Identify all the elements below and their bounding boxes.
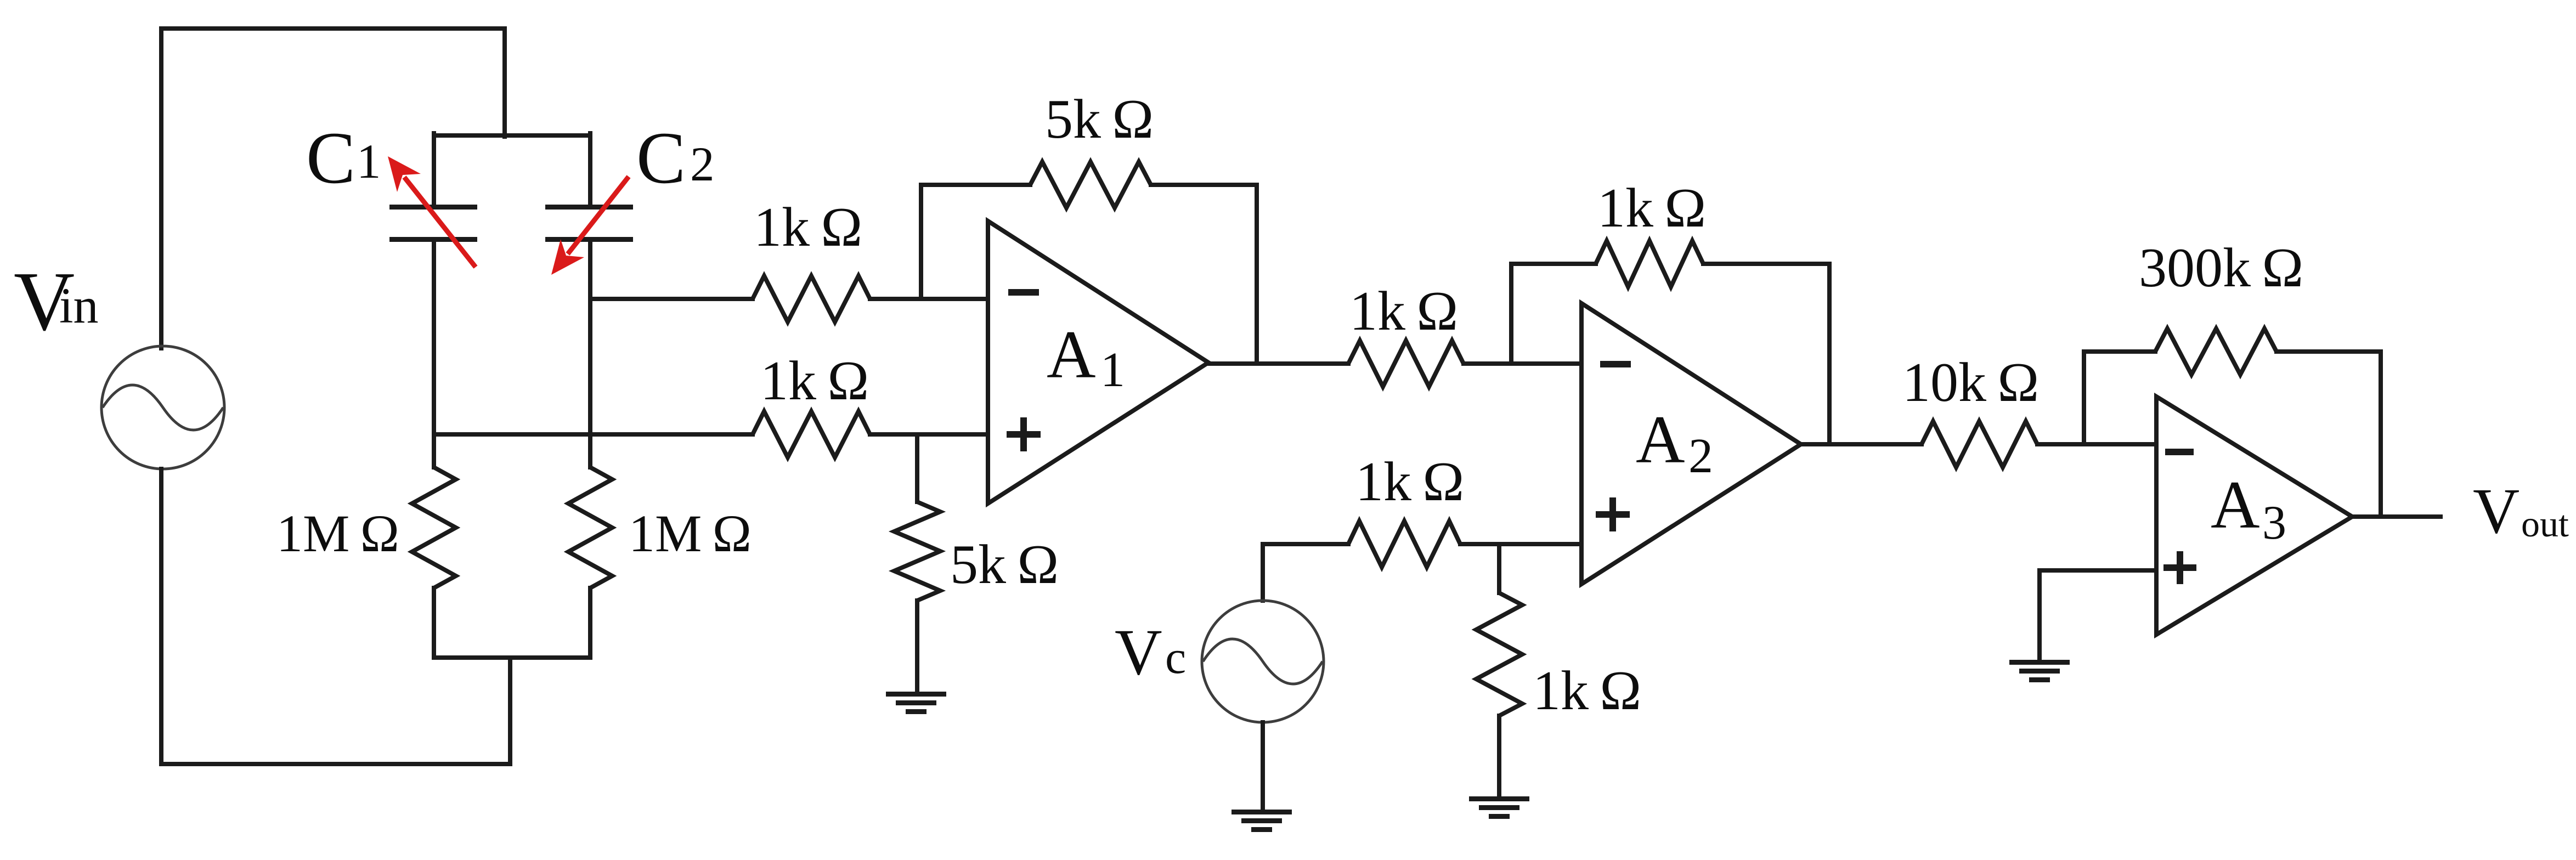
wire : 1k to ground [1497,716,1501,799]
wire : A3 plus row [2040,570,2156,662]
resistor R 1M-ohm left [412,467,456,588]
ground G3 [1469,796,1529,819]
AC source Vc [1202,601,1324,722]
svg-text:1k Ω: 1k Ω [1355,451,1464,513]
wire : C1 junction row to second 1k [434,432,753,437]
op-amp A2 [1581,303,1801,584]
ground G1 [886,692,946,714]
svg-text:V: V [1115,615,1162,688]
svg-text:1k Ω: 1k Ω [1597,177,1706,239]
resistor R 5k-ohm shunt [894,502,940,601]
svg-text:300k Ω: 300k Ω [2139,237,2303,299]
A1 minus pin [1008,289,1039,296]
svg-text:5k Ω: 5k Ω [950,534,1059,596]
resistor R 1k-ohm feedback A2 [1596,241,1703,287]
resistor R 1k-ohm row1 [753,276,870,322]
wire : C1 top lead [432,133,436,205]
wire : A1 output [1208,361,1348,366]
wire : 1M bottoms to bridge bottom bar [434,588,590,658]
wire : plus node down to 1k [1497,544,1501,593]
wire : Vc bottom to ground [1261,722,1265,812]
svg-text:1: 1 [357,135,381,189]
svg-text:1k Ω: 1k Ω [1533,660,1641,722]
resistor R 1k-ohm shunt A2 [1476,593,1522,716]
svg-text:A: A [1047,317,1096,392]
resistor R 1k-ohm series [1348,341,1464,387]
wire : A2 minus node up [1511,264,1596,364]
wire : row2 to A1 plus input [870,432,988,437]
arrow over C1 (variable) [388,156,476,267]
wire : feedback to A1 output [1151,185,1257,364]
wire : A1 minus node up [921,185,1030,299]
wire : series 1k to A2 minus [1464,361,1581,366]
wire : feedback to A3 output [2276,352,2381,517]
wire : Vc up to 1k row [1263,544,1348,601]
node : C2 junction to first 1k [590,297,753,301]
svg-text:1k Ω: 1k Ω [1349,280,1458,342]
svg-text:A: A [1636,402,1685,477]
op-amp A1 [988,221,1208,503]
ground G2 [1231,810,1292,832]
wire : C2 bottom lead down to 1M [588,242,592,467]
resistor R 5k-ohm feedback A1 [1030,162,1151,208]
svg-text:in: in [59,278,99,333]
op-amp A3 [2156,397,2352,635]
A3 minus pin [2165,449,2194,455]
svg-text:out: out [2521,503,2569,545]
wire : bridge top bar [434,133,590,138]
wire : A3 output to Vout [2352,514,2441,519]
svg-text:5k Ω: 5k Ω [1045,88,1154,150]
wire : Vin top loop to bridge [161,29,505,348]
wire : 5k to ground [915,601,919,694]
A1 plus pin [1007,417,1041,451]
A2 plus pin [1596,497,1630,531]
wire : 10k to A3 minus [2037,442,2156,446]
svg-text:1M Ω: 1M Ω [276,504,399,563]
wire : Vc row to A2 plus [1460,542,1581,546]
wire : C2 top lead [588,133,592,205]
arrow over C2 (variable) [551,177,629,275]
resistor R 1k-ohm Vc row [1348,521,1460,567]
svg-text:10k Ω: 10k Ω [1902,352,2039,414]
svg-text:A: A [2211,467,2260,542]
A3 plus pin [2163,551,2196,584]
resistor R 10k-ohm [1922,421,2037,467]
resistor R 300k-ohm feedback [2155,329,2276,375]
ground G4 [2009,660,2070,682]
svg-text:C: C [636,117,686,199]
wire : C1 bottom lead down to 1M [432,242,436,467]
AC source Vin [101,346,224,469]
svg-text:1M Ω: 1M Ω [629,504,752,563]
svg-text:2: 2 [1688,429,1713,483]
svg-text:1: 1 [1100,343,1125,397]
capacitor C1 plates [389,205,477,242]
A2 minus pin [1600,361,1631,367]
wire : A3 minus node up [2084,352,2155,444]
wire : row1 to A1 minus input [870,297,988,301]
svg-text:V: V [2473,475,2519,547]
svg-text:C: C [306,117,355,199]
svg-text:1k Ω: 1k Ω [754,196,862,258]
wire : plus node down to 5k [915,434,919,502]
svg-text:2: 2 [690,138,715,191]
svg-text:1k Ω: 1k Ω [760,350,869,412]
capacitor C2 plates [545,205,633,242]
resistor R 1M-ohm right [568,467,612,588]
resistor R 1k-ohm row2 [753,411,870,457]
wire : feedback to A2 output [1703,264,1829,444]
svg-text:c: c [1165,631,1186,683]
svg-text:3: 3 [2262,496,2286,550]
wire : Vin bottom to bottom rail [161,469,510,764]
wire : A2 output [1801,442,1922,446]
